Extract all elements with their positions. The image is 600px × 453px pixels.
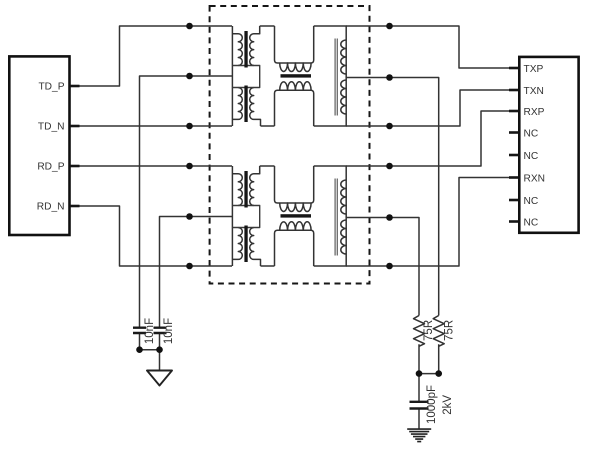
svg-text:RXP: RXP [524,107,545,118]
svg-text:TD_N: TD_N [38,122,65,133]
svg-text:75R: 75R [423,320,435,341]
svg-text:TD_P: TD_P [38,82,64,93]
svg-text:NC: NC [524,128,539,139]
svg-text:1000pF: 1000pF [426,385,438,424]
svg-text:RD_P: RD_P [37,162,64,173]
svg-text:RD_N: RD_N [37,202,65,213]
svg-text:NC: NC [524,196,539,207]
svg-text:10nF: 10nF [163,318,175,344]
svg-text:NC: NC [524,151,539,162]
svg-text:RXN: RXN [524,173,546,184]
svg-text:TXN: TXN [524,86,544,97]
svg-text:75R: 75R [443,320,455,341]
svg-text:2kV: 2kV [442,395,454,415]
svg-text:10nF: 10nF [144,318,156,344]
svg-text:TXP: TXP [524,64,544,75]
svg-text:NC: NC [524,217,539,228]
